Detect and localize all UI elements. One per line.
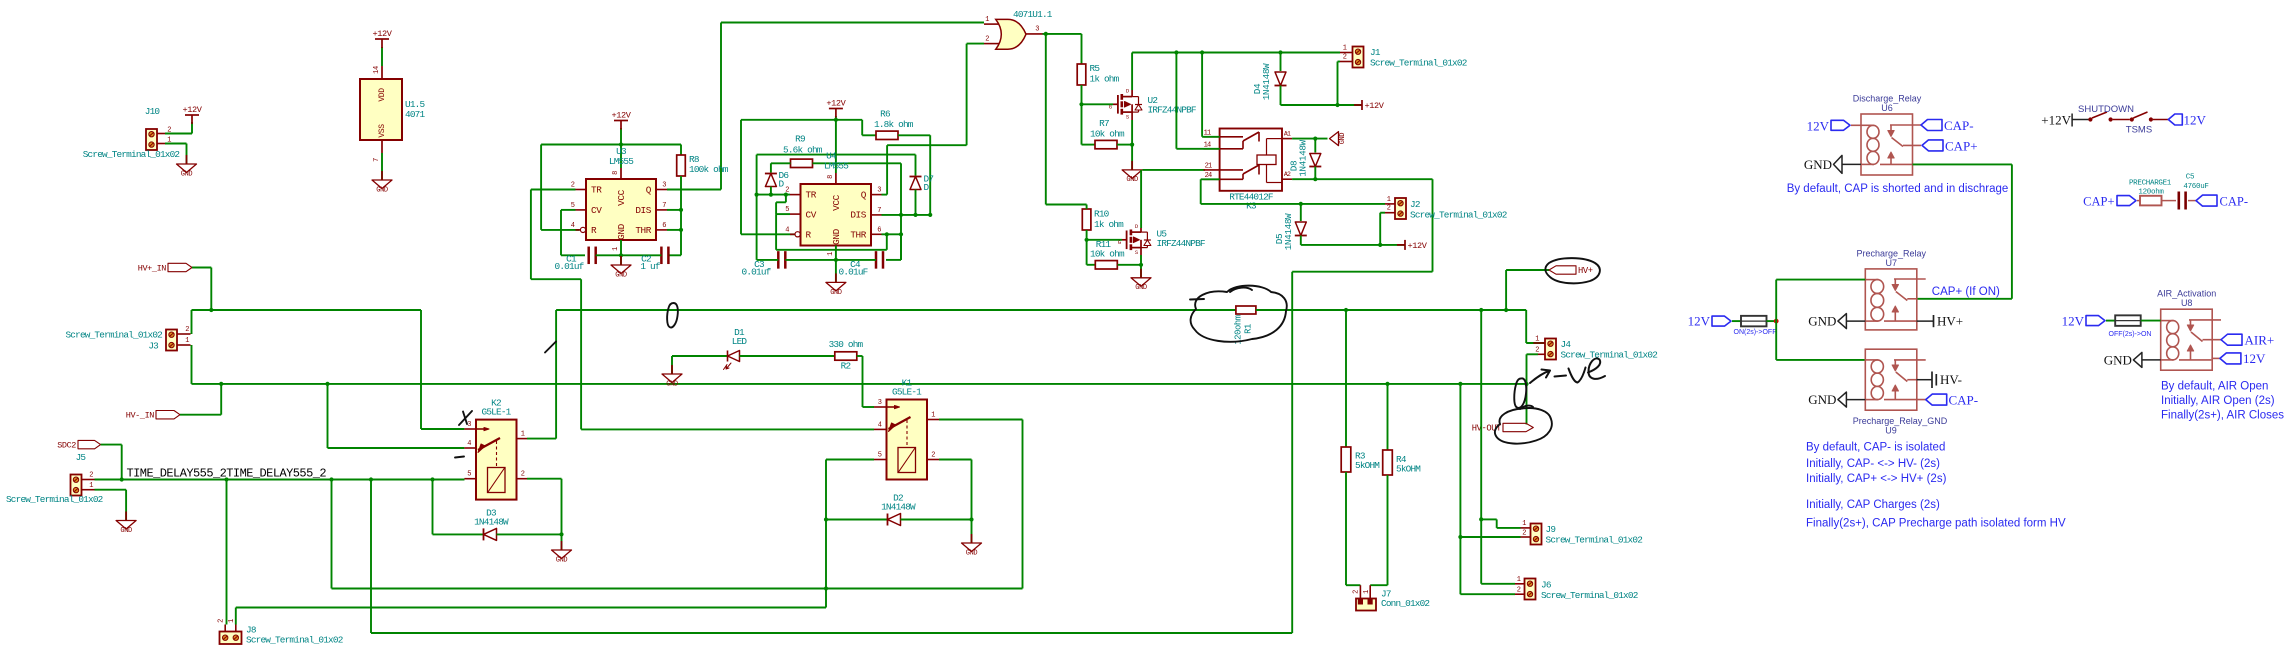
relay U9 Precharge_Relay_GND <box>1865 349 1917 410</box>
wire CV under-box link to THR <box>775 214 777 250</box>
label CAP- at U6 <box>1921 120 1942 131</box>
wire TIME_DELAY555_2 line <box>122 479 465 481</box>
svg-text:G: G <box>1118 239 1121 246</box>
pin 5 of U4 <box>790 213 801 215</box>
svg-text:5: 5 <box>467 471 471 479</box>
pin 2 of U1.1 <box>984 43 999 45</box>
ink mark X at K2 <box>459 411 472 425</box>
capacitor C3 0.01uF <box>777 251 780 269</box>
wire HV+_IN to HV+ bus <box>192 267 211 269</box>
svg-text:3: 3 <box>877 187 881 195</box>
pin 3 of K1 <box>874 406 887 408</box>
pin 4 of K1 <box>874 428 887 430</box>
svg-text:GND: GND <box>830 289 842 297</box>
svg-text:U7: U7 <box>1886 258 1898 268</box>
svg-text:+12V: +12V <box>182 105 202 115</box>
svg-text:8: 8 <box>612 171 620 175</box>
svg-text:J1: J1 <box>1370 47 1381 58</box>
svg-text:GND: GND <box>1808 392 1836 407</box>
wire D6/D7 top link to TR <box>757 154 916 156</box>
svg-text:R: R <box>591 225 597 236</box>
switch of U9 <box>1894 359 1926 361</box>
pin 2 of J10 <box>157 133 165 135</box>
svg-text:C5: C5 <box>2186 174 2195 182</box>
svg-text:R5: R5 <box>1090 63 1101 74</box>
ground at J10 <box>186 155 188 164</box>
wire U4 TR row <box>757 194 790 196</box>
wire K1 pin5 loop <box>826 459 874 461</box>
resistor R6 1.8k <box>876 131 898 139</box>
svg-text:CAP-: CAP- <box>1949 393 1979 408</box>
coil of U9 <box>1865 359 1878 361</box>
svg-text:7: 7 <box>662 202 666 210</box>
switch of U6 <box>1890 124 1921 126</box>
label HV- at U9 <box>1917 379 1933 381</box>
hierarchical label HV-_IN <box>156 411 180 419</box>
svg-text:1: 1 <box>521 431 525 439</box>
node red junction at U7 <box>1774 319 1779 324</box>
ground at U9 <box>1838 392 1847 407</box>
switch of U8 <box>2189 319 2221 321</box>
svg-text:GND: GND <box>1135 284 1147 292</box>
svg-text:+12V: +12V <box>1408 241 1428 251</box>
wire HV- bus main <box>221 383 1526 385</box>
svg-text:1: 1 <box>89 482 93 490</box>
svg-text:5kOHM: 5kOHM <box>1396 464 1421 475</box>
wire J10 pin2 to +12V <box>165 133 192 135</box>
resistor R2 330ohm <box>835 352 857 360</box>
wire D3 left riser to timer line <box>432 480 434 535</box>
svg-text:1: 1 <box>228 619 236 623</box>
power +12V at J2 <box>1404 240 1406 250</box>
wire HV- riser to J9/J6 pin2 <box>1458 382 1462 386</box>
wire R10 to U5 gate <box>1087 239 1122 241</box>
resistor R3 5kOHM <box>1341 447 1351 472</box>
svg-text:SHUTDOWN: SHUTDOWN <box>2078 104 2134 115</box>
svg-text:TR: TR <box>806 190 817 201</box>
ink oval at bus end <box>1514 378 1526 407</box>
svg-text:1N4148W: 1N4148W <box>1283 213 1294 250</box>
switch SHUTDOWN <box>2088 117 2092 121</box>
wire U1 pin7 to GND <box>381 140 383 153</box>
svg-text:2: 2 <box>1353 590 1361 594</box>
wire HV- bus end to HV-OUT <box>1526 384 1528 425</box>
svg-text:TSMS: TSMS <box>2126 125 2152 136</box>
pin 2 of J4 <box>1538 353 1545 355</box>
connector J4 Screw_Terminal_01x02 <box>1545 339 1556 360</box>
svg-text:5kOHM: 5kOHM <box>1355 460 1380 471</box>
svg-text:R7: R7 <box>1099 118 1109 129</box>
svg-text:CAP-: CAP- <box>1944 118 1974 133</box>
pin 1 of J4 <box>1533 342 1545 344</box>
wire K2 pin2 lower bus riser <box>331 480 333 589</box>
svg-text:4760uF: 4760uF <box>2183 183 2208 191</box>
pin 2 of J8 <box>224 625 226 632</box>
pin 2 of K2 <box>517 478 528 480</box>
svg-text:7: 7 <box>373 158 381 162</box>
svg-text:1: 1 <box>1517 576 1521 584</box>
pin 2 of J6 <box>1515 593 1525 595</box>
svg-text:1: 1 <box>1387 196 1391 204</box>
wire SDC2 to timer line <box>101 444 122 446</box>
svg-text:6: 6 <box>877 226 881 234</box>
svg-text:4071: 4071 <box>405 109 425 120</box>
connector J7 Conn_01x02 <box>1356 599 1376 611</box>
pin 6 of U3 <box>656 229 667 231</box>
wire U4 CV row <box>776 213 790 215</box>
svg-text:A1: A1 <box>1284 131 1291 138</box>
svg-text:GND: GND <box>120 527 132 535</box>
pin 4 of K2 <box>464 447 476 449</box>
ic U4 LM555 <box>801 184 872 246</box>
svg-text:Screw_Terminal_01x02: Screw_Terminal_01x02 <box>1541 590 1638 601</box>
svg-text:5: 5 <box>878 452 882 460</box>
capacitor C4 0.01uF <box>875 251 878 269</box>
ground at U8 <box>2133 352 2142 367</box>
svg-text:VDD: VDD <box>378 88 387 102</box>
svg-text:5: 5 <box>571 202 575 210</box>
ground sideways at K3 A1 <box>1330 132 1339 146</box>
transistor U5 IRFZ44NPBF <box>1122 239 1127 241</box>
svg-text:1: 1 <box>931 412 935 420</box>
wire U3 TR to K1 loop <box>531 189 576 191</box>
svg-text:Initially, CAP Charges (2s): Initially, CAP Charges (2s) <box>1806 499 1940 511</box>
svg-text:GND: GND <box>616 223 627 239</box>
svg-text:DIS: DIS <box>850 209 866 220</box>
svg-text:21: 21 <box>1205 162 1212 170</box>
svg-text:1: 1 <box>612 247 620 251</box>
svg-text:CAP+: CAP+ <box>2083 195 2114 209</box>
svg-text:ON(2s)->OFF: ON(2s)->OFF <box>1734 329 1777 336</box>
svg-text:1N4148W: 1N4148W <box>1261 63 1272 100</box>
wire K1 pin2 to D2 <box>939 459 972 461</box>
svg-text:R2: R2 <box>841 361 851 372</box>
wire GND node down to U5 drain <box>1140 170 1142 228</box>
svg-text:R: R <box>806 230 812 241</box>
switch of U7 <box>1894 278 1926 280</box>
svg-text:GND: GND <box>666 381 678 389</box>
svg-text:3: 3 <box>467 421 471 429</box>
svg-text:LED: LED <box>732 336 748 347</box>
svg-text:Finally(2s+), CAP Precharge pa: Finally(2s+), CAP Precharge path isolate… <box>1806 517 2066 529</box>
svg-text:2: 2 <box>985 36 989 44</box>
svg-text:3: 3 <box>878 399 882 407</box>
svg-text:THR: THR <box>850 230 866 241</box>
svg-text:U6: U6 <box>1881 103 1893 113</box>
ic U3 LM555 <box>586 179 656 240</box>
svg-text:AIR+: AIR+ <box>2245 333 2275 348</box>
wire HV+ bus horizontal <box>192 309 422 311</box>
svg-text:Screw_Terminal_01x02: Screw_Terminal_01x02 <box>1561 350 1658 361</box>
pin 3 of U1.1 output <box>1026 33 1043 35</box>
wire between switches <box>2113 119 2130 121</box>
svg-text:CAP-: CAP- <box>2220 195 2248 209</box>
svg-text:14: 14 <box>373 66 381 74</box>
capacitor C2 1uF <box>660 247 663 264</box>
transistor U2 IRFZ44NPBF <box>1113 103 1118 105</box>
coil of U7 <box>1865 279 1878 281</box>
ink blob around R1 <box>1191 286 1287 342</box>
pin 14 of K3 <box>1204 148 1220 150</box>
pin 7 of U4 <box>871 214 882 216</box>
svg-text:1 uf: 1 uf <box>640 261 660 272</box>
wire R3 to J7 pin2 <box>1345 472 1347 585</box>
ink dash above R1 <box>1190 298 1204 301</box>
svg-text:Discharge_Relay: Discharge_Relay <box>1853 94 1922 104</box>
wire J8 pin1 bus <box>235 608 237 625</box>
pin 1 of J2 <box>1385 203 1395 205</box>
svg-text:2: 2 <box>1535 346 1539 354</box>
svg-text:CV: CV <box>591 205 602 216</box>
diode D5 1N4148W <box>1299 202 1303 206</box>
wire +12V to U4 VCC <box>835 116 837 173</box>
pin 1 of K1 <box>927 419 939 421</box>
pin 2 of J3 <box>177 333 191 335</box>
pin 2 of J9 <box>1521 536 1531 538</box>
resistor R1 120ohm <box>1236 306 1256 314</box>
svg-text:R9: R9 <box>795 134 805 145</box>
pin 1 of K2 <box>517 438 528 440</box>
svg-text:TR: TR <box>591 185 602 196</box>
svg-text:AIR_Activation: AIR_Activation <box>2157 289 2216 299</box>
svg-text:100k ohm: 100k ohm <box>689 164 729 175</box>
wire U4 VCC rail left <box>741 119 836 121</box>
relay K2 G5LE-1 <box>476 420 517 500</box>
pin 3 of U3 <box>656 189 667 191</box>
svg-text:Q: Q <box>646 185 652 196</box>
pin 1 of J8 <box>235 625 237 632</box>
ink blob around HV-OUT <box>1495 408 1552 444</box>
wire J9 pin2 <box>1460 536 1520 538</box>
wire +12V to U1 pin14 <box>381 47 383 66</box>
svg-text:J6: J6 <box>1541 580 1552 591</box>
svg-text:By default, CAP- is isolated: By default, CAP- is isolated <box>1806 442 1945 454</box>
wire J5 pin2 to node <box>95 479 122 481</box>
svg-text:GND: GND <box>1804 157 1832 172</box>
svg-text:LM555: LM555 <box>824 161 849 172</box>
pin 3 of K2 <box>464 428 476 430</box>
svg-text:+12V: +12V <box>611 111 631 121</box>
wire R2 to K1 pin3 <box>857 355 863 357</box>
pin 5 of U3 <box>576 209 587 211</box>
svg-text:HV+: HV+ <box>1578 266 1593 276</box>
wire OR output node <box>1043 33 1082 35</box>
svg-text:G5LE-1: G5LE-1 <box>892 387 922 398</box>
wire J9 pin1 jog <box>1481 518 1497 520</box>
wire U5 source to GND <box>1140 255 1142 278</box>
wire J2 pin2 to +12V <box>1380 212 1385 214</box>
svg-text:GND: GND <box>1339 133 1347 145</box>
svg-text:2: 2 <box>931 452 935 460</box>
wire rail to K3 pin11 <box>1201 53 1203 137</box>
wire HV-_IN riser to HV- bus <box>180 414 221 416</box>
svg-text:CAP+: CAP+ <box>1945 139 1978 154</box>
ground at U5 source <box>1140 269 1142 278</box>
svg-text:K3: K3 <box>1246 201 1257 212</box>
diode D6 <box>765 174 776 187</box>
svg-text:0.01uF: 0.01uF <box>839 267 868 278</box>
svg-text:Screw_Terminal_01x02: Screw_Terminal_01x02 <box>6 494 103 505</box>
wire R7 to U2 source <box>1117 144 1132 146</box>
resistor R4 5kOHM <box>1383 450 1393 475</box>
svg-text:4: 4 <box>571 222 575 230</box>
pin 1 of U1.1 <box>984 23 999 25</box>
svg-text:+12V: +12V <box>372 29 392 39</box>
label AIR+ at U8 <box>2221 334 2242 345</box>
pin 21 of K3 <box>1204 169 1220 171</box>
wire K1 pin1 loop <box>939 419 1023 421</box>
svg-text:1: 1 <box>185 337 189 345</box>
relay K1 G5LE-1 <box>887 400 928 480</box>
label CAP- at precharge <box>2196 195 2217 206</box>
svg-text:Initially, CAP- <-> HV- (2s): Initially, CAP- <-> HV- (2s) <box>1806 458 1940 470</box>
svg-text:2: 2 <box>185 326 189 334</box>
svg-text:4071U1.1: 4071U1.1 <box>1013 9 1053 20</box>
svg-text:1N4148W: 1N4148W <box>881 502 916 513</box>
svg-text:1k ohm: 1k ohm <box>1094 219 1124 230</box>
svg-text:12V: 12V <box>2184 113 2207 128</box>
ground at D1 <box>671 365 673 374</box>
svg-text:CV: CV <box>806 209 817 220</box>
svg-text:DIS: DIS <box>635 205 651 216</box>
wire J4 pin2 to HV- bus end <box>1527 353 1539 355</box>
wire J6 pin2 <box>1460 593 1515 595</box>
wire TR jog to CV <box>785 195 787 203</box>
svg-text:G: G <box>1109 104 1112 111</box>
svg-text:Precharge_Relay: Precharge_Relay <box>1857 248 1927 258</box>
svg-text:2: 2 <box>1517 586 1521 594</box>
svg-text:OFF(2s)->ON: OFF(2s)->ON <box>2109 331 2152 338</box>
wire 12V to U9 coil <box>1775 321 1777 360</box>
wire R8 bottom to C2 <box>668 254 681 256</box>
svg-text:8: 8 <box>827 175 835 179</box>
wire lower bus riser to J8-area <box>370 480 372 634</box>
wire OR output to R5 <box>1081 34 1083 64</box>
switch TSMS <box>2130 117 2134 121</box>
ground at U1 <box>381 171 383 180</box>
pin 1 of J1 <box>1340 52 1353 54</box>
resistor R10 1k <box>1082 209 1091 230</box>
wire R5 to U2 gate <box>1082 103 1114 105</box>
wire K1 pin4 from U3 TR loop <box>581 428 874 430</box>
wire K3 A1 to GND <box>1292 138 1327 140</box>
pin 1 of J9 <box>1521 527 1531 529</box>
wire GND node to K3 pin21 <box>1143 169 1206 171</box>
svg-text:2: 2 <box>218 619 226 623</box>
svg-text:GND: GND <box>1126 176 1138 184</box>
svg-text:1N4148W: 1N4148W <box>1298 139 1309 176</box>
svg-text:Screw_Terminal_01x02: Screw_Terminal_01x02 <box>83 149 180 160</box>
svg-text:GND: GND <box>615 272 627 280</box>
svg-text:4: 4 <box>467 440 471 448</box>
wire U3 pin1 GND <box>620 240 622 265</box>
wire A2 loop down to bottom bus <box>1432 179 1434 272</box>
connector J9 Screw_Terminal_01x02 <box>1531 524 1542 545</box>
svg-text:Q: Q <box>861 190 867 201</box>
wire D3 to GND <box>561 534 563 550</box>
svg-text:VCC: VCC <box>831 194 842 210</box>
ground at D3 <box>561 541 563 550</box>
wire J3 pin2 riser <box>191 310 193 334</box>
svg-text:Initially, CAP+ <-> HV+ (2s): Initially, CAP+ <-> HV+ (2s) <box>1806 473 1947 485</box>
svg-text:6: 6 <box>662 222 666 230</box>
ground at U3 <box>620 256 622 265</box>
wire +12V to U3 VCC <box>620 128 622 168</box>
wire U3 Q to OR gate input1 <box>667 189 721 191</box>
resistor R7 10k <box>1082 144 1096 146</box>
pin 5 of K2 <box>464 478 476 480</box>
wire J8 pin2 riser to timer line <box>226 480 228 625</box>
svg-text:2: 2 <box>89 472 93 480</box>
svg-text:10k ohm: 10k ohm <box>1090 129 1125 140</box>
label CAP- at U9 <box>1926 394 1947 405</box>
wire K2 pin1 riser to HV+ right bus <box>527 438 556 440</box>
pin 6 of U4 <box>871 233 882 235</box>
pin A1 of K3 <box>1282 138 1292 140</box>
svg-text:SDC2: SDC2 <box>57 441 76 451</box>
wire HV+ riser to K2 pin3 <box>420 310 422 429</box>
wire 12V to U7 coil <box>1775 280 1777 322</box>
svg-text:GND: GND <box>2104 352 2132 367</box>
wire R11 to U5 source <box>1118 264 1141 266</box>
wire HV+ bus to J4 pin1 <box>1525 310 1527 343</box>
svg-text:PRECHARGE1: PRECHARGE1 <box>2129 180 2172 188</box>
pin 2 of J1 <box>1340 61 1353 63</box>
pin 3 of U4 <box>871 194 882 196</box>
wire K2 pin2 to D3 <box>527 478 562 480</box>
svg-text:HV-: HV- <box>1940 372 1962 387</box>
svg-text:1: 1 <box>1535 336 1539 344</box>
svg-text:G5LE-1: G5LE-1 <box>482 407 512 418</box>
relay U7 Precharge_Relay <box>1865 269 1917 330</box>
svg-text:3: 3 <box>1035 26 1039 34</box>
wire C3 left riser <box>756 195 758 260</box>
svg-text:Screw_Terminal_01x02: Screw_Terminal_01x02 <box>1546 535 1643 546</box>
wire R9 right to DIS/THR riser <box>813 162 902 164</box>
svg-text:5: 5 <box>785 206 789 214</box>
svg-text:HV+: HV+ <box>1937 314 1963 329</box>
svg-text:10k ohm: 10k ohm <box>1090 249 1125 260</box>
svg-text:1N4148W: 1N4148W <box>474 517 509 528</box>
svg-text:4: 4 <box>878 421 882 429</box>
svg-text:2: 2 <box>1387 205 1391 213</box>
relay U8 AIR_Activation <box>2161 309 2213 370</box>
svg-text:HV-_IN: HV-_IN <box>126 411 155 421</box>
wire K3 pin24 to J2 line <box>1201 178 1220 180</box>
coil of U6 <box>1861 124 1874 126</box>
ink circle around HV+ <box>1545 258 1599 283</box>
svg-text:2: 2 <box>1343 54 1347 62</box>
svg-text:LM555: LM555 <box>609 156 634 167</box>
wire U3 VCC rail <box>541 144 681 146</box>
node HV- bus start <box>192 383 222 385</box>
svg-text:J3: J3 <box>148 341 159 352</box>
svg-text:12V: 12V <box>1807 119 1830 134</box>
ground at U2 source <box>1131 161 1133 170</box>
ground at U6 <box>1834 155 1843 173</box>
svg-text:U9: U9 <box>1885 426 1897 436</box>
pin 2 of U4 <box>790 194 801 196</box>
svg-text:HV+_IN: HV+_IN <box>138 264 167 274</box>
wire J6 pin1 <box>1481 583 1515 585</box>
svg-text:Precharge_Relay_GND: Precharge_Relay_GND <box>1853 416 1948 426</box>
hierarchical label SDC2 <box>78 440 101 448</box>
wire R6 to DIS riser <box>898 134 930 136</box>
resistor R9 5.6k <box>791 159 813 167</box>
connector J8 Screw_Terminal_01x02 <box>220 632 242 645</box>
svg-text:GND: GND <box>1808 314 1836 329</box>
relay K3 RTE44012F <box>1220 129 1282 191</box>
